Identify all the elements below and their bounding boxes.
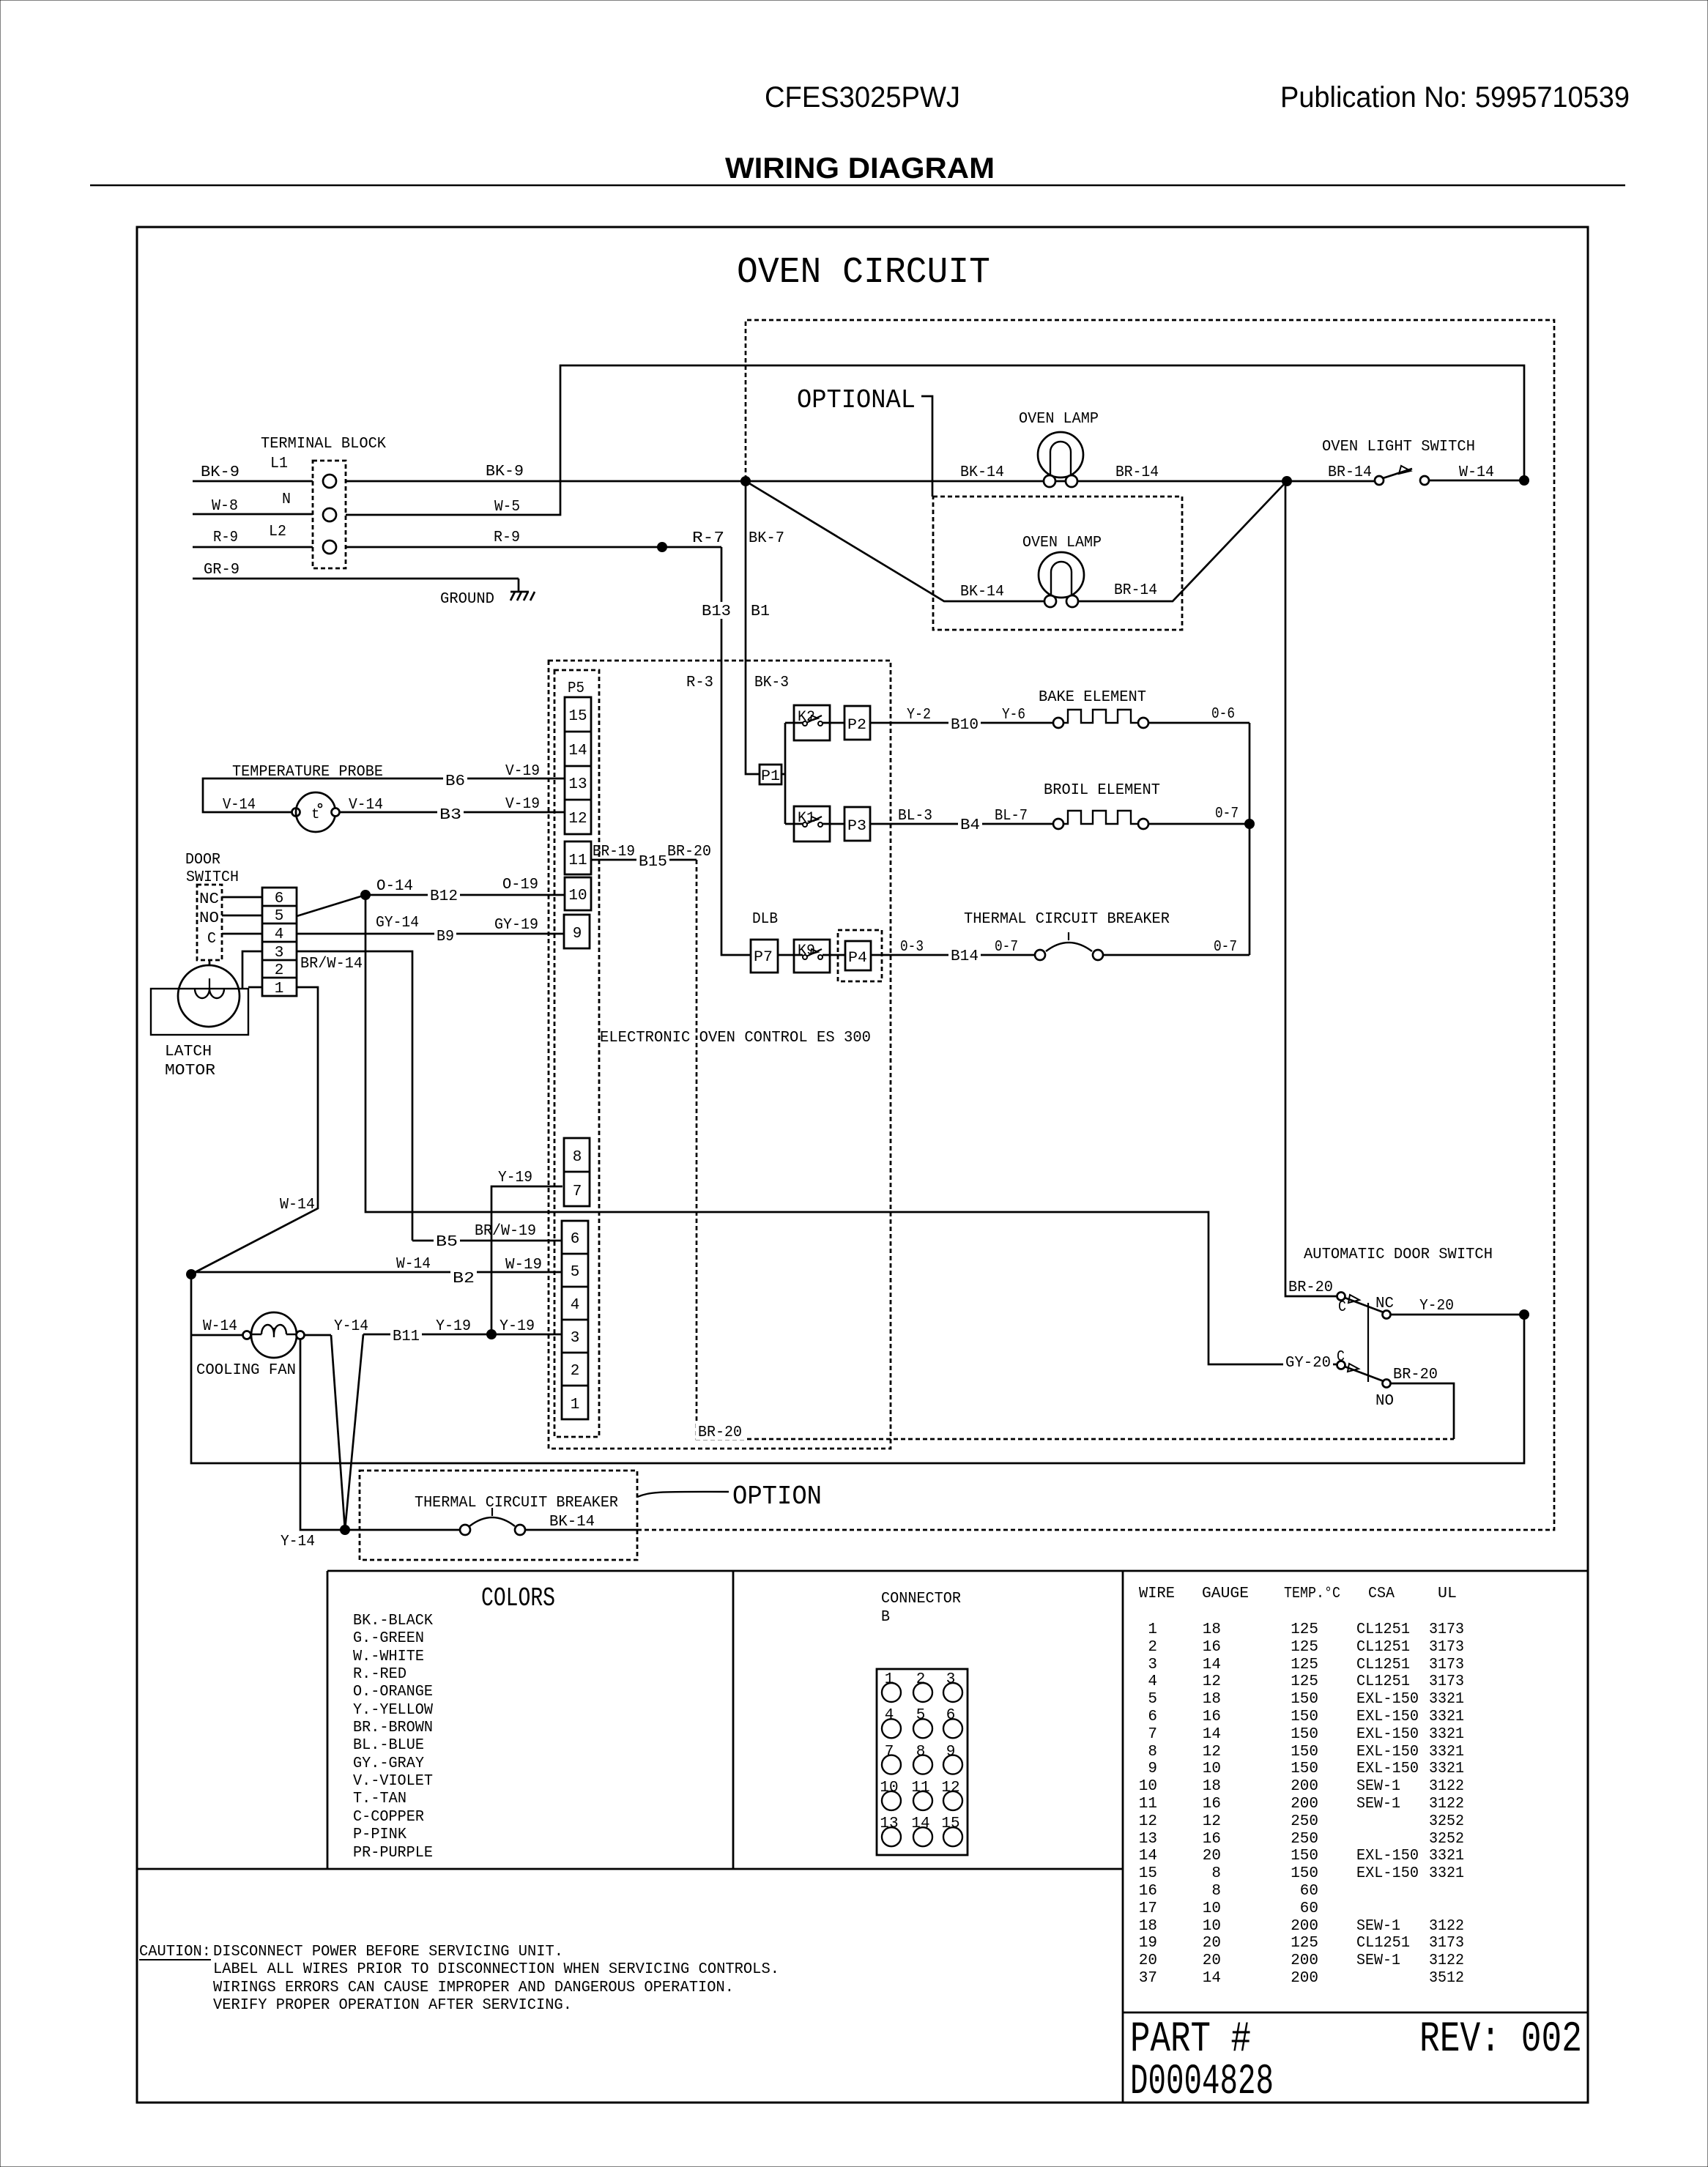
connector P2	[844, 706, 870, 740]
svg-text:C: C	[1338, 1299, 1346, 1316]
label B10	[948, 715, 981, 734]
optional lamp box	[933, 497, 1182, 630]
label BR-20 top	[667, 844, 711, 861]
svg-text:L1: L1	[270, 456, 288, 472]
svg-text:150: 150	[1291, 1865, 1318, 1882]
svg-text:3252: 3252	[1429, 1831, 1464, 1848]
svg-text:THERMAL CIRCUIT BREAKER: THERMAL CIRCUIT BREAKER	[964, 911, 1170, 928]
svg-text:NO: NO	[199, 910, 219, 927]
svg-text:W-14: W-14	[280, 1197, 315, 1213]
label O-7 right	[1214, 939, 1237, 956]
wire W-8	[193, 498, 313, 515]
svg-text:8: 8	[1211, 1883, 1221, 1900]
svg-text:N: N	[282, 491, 291, 508]
svg-text:3: 3	[946, 1671, 956, 1688]
svg-text:12: 12	[1203, 1673, 1221, 1690]
node O-14 junction	[360, 890, 371, 900]
svg-text:BR/W-14: BR/W-14	[300, 956, 363, 973]
label BK-7	[749, 530, 784, 547]
svg-text:BL.-BLUE: BL.-BLUE	[353, 1737, 424, 1754]
svg-text:0-3: 0-3	[900, 939, 924, 956]
broil element	[1044, 782, 1160, 829]
svg-text:BK-14: BK-14	[960, 464, 1004, 481]
svg-text:P1: P1	[761, 768, 780, 785]
wire NO to pin5	[222, 915, 262, 917]
label C upper	[1338, 1299, 1346, 1316]
svg-text:20: 20	[1203, 1952, 1221, 1969]
label Y-19 pin7	[498, 1170, 532, 1186]
svg-text:3321: 3321	[1429, 1691, 1464, 1708]
svg-text:OPTIONAL: OPTIONAL	[797, 385, 916, 415]
svg-text:B6: B6	[445, 773, 465, 790]
label B15	[636, 852, 669, 871]
colors legend	[353, 1583, 555, 1862]
svg-text:200: 200	[1291, 1796, 1318, 1813]
header model number	[765, 81, 960, 114]
svg-text:14: 14	[911, 1815, 929, 1832]
caution text	[139, 1944, 779, 2014]
label BK-3	[754, 674, 789, 691]
svg-text:BR-20: BR-20	[1393, 1367, 1438, 1383]
P5 pin 10	[565, 877, 591, 910]
svg-text:Publication No: 5995710539: Publication No: 5995710539	[1280, 81, 1630, 114]
wire door switch C-box to motor	[209, 960, 211, 966]
svg-text:LATCH: LATCH	[165, 1044, 212, 1060]
label BL-7	[995, 808, 1028, 825]
node BR junction	[1282, 476, 1292, 486]
svg-text:3: 3	[275, 945, 284, 962]
svg-text:CFES3025PWJ: CFES3025PWJ	[765, 81, 960, 114]
svg-text:0-7: 0-7	[995, 939, 1018, 956]
label C lower	[1337, 1349, 1345, 1366]
label BR/W-14	[300, 956, 363, 973]
svg-text:200: 200	[1291, 1970, 1318, 1987]
svg-text:3173: 3173	[1429, 1621, 1464, 1638]
svg-text:Y.-YELLOW: Y.-YELLOW	[353, 1702, 433, 1719]
svg-text:DISCONNECT POWER BEFORE SERVIC: DISCONNECT POWER BEFORE SERVICING UNIT.	[213, 1944, 563, 1960]
svg-text:CL1251: CL1251	[1356, 1657, 1410, 1673]
svg-text:9: 9	[1148, 1761, 1157, 1777]
svg-text:0-6: 0-6	[1211, 706, 1235, 723]
label BR-20 bottom	[696, 1423, 744, 1441]
svg-text:18: 18	[1139, 1918, 1157, 1935]
wire BK-14 option breaker loop	[637, 320, 1554, 1530]
svg-text:W-8: W-8	[212, 498, 238, 515]
svg-text:15: 15	[941, 1815, 959, 1832]
connector P1	[760, 765, 781, 785]
svg-text:BR-14: BR-14	[1328, 464, 1372, 481]
P5 pins 8-7	[564, 1138, 590, 1206]
svg-text:COOLING FAN: COOLING FAN	[196, 1362, 296, 1379]
svg-text:12: 12	[1139, 1813, 1157, 1830]
svg-text:GROUND: GROUND	[440, 591, 494, 608]
svg-text:V-19: V-19	[505, 763, 540, 780]
wire P2 to bake element	[870, 722, 1053, 724]
svg-text:Y-19: Y-19	[436, 1318, 471, 1335]
wire O-6	[1148, 723, 1250, 824]
svg-text:R-3: R-3	[686, 674, 713, 691]
title OVEN CIRCUIT	[737, 252, 990, 294]
svg-text:150: 150	[1291, 1744, 1318, 1761]
wire C to pin4	[222, 933, 262, 935]
svg-text:V-19: V-19	[505, 796, 540, 813]
svg-text:BL-7: BL-7	[995, 808, 1028, 825]
svg-text:10: 10	[1203, 1761, 1221, 1777]
wire BR-14/BR-20 down right side	[1285, 481, 1337, 1296]
label V-14 right	[349, 797, 383, 814]
option thermal breaker contacts	[460, 1508, 637, 1535]
connector P4	[838, 930, 882, 981]
svg-text:10: 10	[1203, 1918, 1221, 1935]
label V-19 pin13	[505, 763, 540, 780]
svg-text:W-5: W-5	[494, 499, 520, 516]
label O-3	[900, 939, 924, 956]
svg-text:200: 200	[1291, 1778, 1318, 1795]
svg-text:C: C	[1337, 1349, 1345, 1366]
label B13	[699, 602, 733, 620]
svg-text:BR/W-19: BR/W-19	[475, 1223, 536, 1240]
svg-text:PART #: PART #	[1130, 2016, 1251, 2064]
svg-text:BK-7: BK-7	[749, 530, 784, 547]
svg-text:125: 125	[1291, 1621, 1318, 1638]
label W-14 b2	[396, 1256, 431, 1273]
ground symbol	[440, 579, 535, 608]
label Y-19 left	[436, 1318, 471, 1335]
svg-text:Y-19: Y-19	[498, 1170, 532, 1186]
label BK-14 upper	[960, 464, 1004, 481]
svg-text:R.-RED: R.-RED	[353, 1666, 406, 1683]
svg-text:B9: B9	[437, 929, 454, 945]
svg-text:P3: P3	[847, 818, 866, 835]
node Y-19 junction	[486, 1329, 497, 1339]
svg-text:B5: B5	[436, 1234, 458, 1251]
label Y-14 bottom	[281, 1534, 315, 1550]
svg-text:60: 60	[1300, 1900, 1318, 1917]
svg-text:8: 8	[1211, 1865, 1221, 1882]
wire GR-9	[193, 562, 519, 579]
svg-text:12: 12	[1203, 1744, 1221, 1761]
svg-text:14: 14	[1203, 1657, 1221, 1673]
svg-text:200: 200	[1291, 1952, 1318, 1969]
P5 pin 11	[565, 841, 591, 874]
svg-text:P5: P5	[568, 680, 584, 697]
door switch	[185, 852, 239, 960]
svg-text:CSA: CSA	[1368, 1586, 1395, 1602]
svg-text:C-COPPER: C-COPPER	[353, 1809, 424, 1826]
svg-text:V.-VIOLET: V.-VIOLET	[353, 1773, 433, 1790]
wire W-5 neutral loop	[346, 365, 1524, 516]
wire cell3 left to motor box	[242, 951, 262, 989]
P5 pins 15-12	[565, 697, 591, 834]
label BK-14 option	[549, 1514, 595, 1531]
wire K2 to P2	[823, 722, 844, 724]
label Y-19 right	[500, 1318, 535, 1335]
header title WIRING DIAGRAM	[725, 152, 995, 185]
bake element	[1039, 689, 1148, 728]
svg-text:BK-14: BK-14	[549, 1514, 595, 1531]
svg-text:CONNECTOR: CONNECTOR	[881, 1591, 961, 1607]
svg-text:3122: 3122	[1429, 1918, 1464, 1935]
svg-text:3512: 3512	[1429, 1970, 1464, 1987]
wire R-9 right	[346, 529, 721, 547]
svg-text:P4: P4	[848, 950, 867, 967]
svg-text:8: 8	[1148, 1744, 1157, 1761]
svg-text:0-7: 0-7	[1214, 939, 1237, 956]
label Y-14 fan	[334, 1318, 368, 1335]
svg-text:4: 4	[885, 1707, 894, 1724]
wire Y-14 fan to junction	[300, 1335, 460, 1530]
wire cell1 left to motor box	[248, 986, 262, 989]
label O-14	[376, 878, 413, 895]
svg-text:150: 150	[1291, 1848, 1318, 1865]
svg-text:NO: NO	[1375, 1393, 1394, 1410]
label B12	[428, 887, 460, 905]
svg-text:WIRE: WIRE	[1139, 1586, 1175, 1602]
svg-text:10: 10	[1203, 1900, 1221, 1917]
svg-text:B2: B2	[453, 1271, 475, 1287]
svg-text:3173: 3173	[1429, 1639, 1464, 1656]
svg-text:7: 7	[573, 1183, 582, 1200]
svg-text:0-7: 0-7	[1215, 806, 1239, 822]
svg-text:OPTION: OPTION	[732, 1482, 822, 1512]
label B1	[749, 602, 772, 620]
wire B11 / Y-19 to pin3	[345, 1334, 562, 1530]
svg-text:CAUTION:: CAUTION:	[139, 1944, 211, 1960]
label O-7 broil	[1215, 806, 1239, 822]
svg-text:6: 6	[571, 1231, 580, 1248]
svg-text:17: 17	[1139, 1900, 1157, 1917]
svg-text:6: 6	[275, 891, 284, 907]
wire BK-9 left	[193, 464, 313, 481]
svg-text:PR-PURPLE: PR-PURPLE	[353, 1845, 433, 1862]
label BR/W-19	[475, 1223, 536, 1240]
svg-text:GR-9: GR-9	[204, 562, 240, 579]
node W-14 junction	[1519, 475, 1529, 486]
svg-text:2: 2	[916, 1671, 926, 1688]
svg-text:BR-20: BR-20	[698, 1424, 742, 1441]
wire K1 to P3	[823, 823, 844, 825]
svg-text:GY-19: GY-19	[494, 917, 538, 934]
svg-text:B15: B15	[639, 854, 667, 871]
svg-text:BR-20: BR-20	[1288, 1279, 1333, 1296]
relay K2	[794, 705, 830, 740]
label O-7 left	[995, 939, 1018, 956]
svg-text:3321: 3321	[1429, 1761, 1464, 1777]
wire W-14 from cell1 down	[191, 987, 318, 1274]
svg-text:150: 150	[1291, 1691, 1318, 1708]
svg-text:125: 125	[1291, 1639, 1318, 1656]
svg-text:1: 1	[1148, 1621, 1157, 1638]
wire Y-19 to pin7	[491, 1186, 562, 1334]
svg-text:150: 150	[1291, 1709, 1318, 1725]
automatic door switch	[1304, 1246, 1493, 1388]
svg-text:G.-GREEN: G.-GREEN	[353, 1630, 424, 1647]
svg-text:OVEN CIRCUIT: OVEN CIRCUIT	[737, 252, 990, 294]
wire P7 to K9	[778, 954, 803, 956]
svg-text:V-14: V-14	[223, 797, 256, 814]
wire W-14 to fan	[191, 1334, 243, 1337]
svg-text:3252: 3252	[1429, 1813, 1464, 1830]
svg-text:3173: 3173	[1429, 1673, 1464, 1690]
svg-text:11: 11	[568, 852, 587, 869]
svg-text:3321: 3321	[1429, 1865, 1464, 1882]
label BR-14 upper	[1115, 464, 1159, 481]
svg-text:O.-ORANGE: O.-ORANGE	[353, 1684, 433, 1700]
label BR-20 ads	[1288, 1279, 1333, 1296]
label BL-3	[898, 808, 932, 825]
label W-14 latch	[280, 1197, 315, 1213]
wire gauge table	[1139, 1586, 1464, 1987]
svg-text:TERMINAL BLOCK: TERMINAL BLOCK	[261, 436, 386, 453]
node W-14 junction left	[186, 1269, 196, 1279]
svg-text:4: 4	[571, 1297, 580, 1314]
svg-text:5: 5	[1148, 1691, 1157, 1708]
svg-text:7: 7	[1148, 1726, 1157, 1743]
svg-text:WIRING DIAGRAM: WIRING DIAGRAM	[725, 152, 995, 185]
label O-19	[502, 877, 538, 893]
wire O-14 diagonal to NO cell5	[297, 895, 365, 916]
svg-text:14: 14	[1139, 1848, 1157, 1865]
svg-text:SEW-1: SEW-1	[1356, 1952, 1400, 1969]
svg-text:2: 2	[571, 1363, 580, 1380]
cooling fan	[196, 1312, 305, 1379]
temperature probe	[203, 764, 565, 832]
wire O-7 to junction	[1148, 823, 1250, 825]
svg-text:BR-14: BR-14	[1115, 464, 1159, 481]
label B11	[390, 1327, 422, 1345]
svg-text:250: 250	[1291, 1831, 1318, 1848]
svg-text:5: 5	[275, 908, 284, 925]
bottom panel dividers	[137, 1571, 1588, 2103]
svg-text:4: 4	[275, 926, 284, 943]
label V-14 left	[223, 797, 256, 814]
svg-text:CL1251: CL1251	[1356, 1673, 1410, 1690]
label GY-19	[494, 917, 538, 934]
header rule	[90, 185, 1625, 186]
svg-text:19: 19	[1139, 1935, 1157, 1952]
svg-text:EXL-150: EXL-150	[1356, 1709, 1419, 1725]
label B14	[948, 947, 981, 965]
svg-text:6: 6	[1148, 1709, 1157, 1725]
svg-text:DOOR: DOOR	[185, 852, 220, 869]
svg-text:8: 8	[573, 1149, 582, 1166]
oven light switch	[1322, 439, 1475, 485]
oven lamp 1 (upper)	[1019, 411, 1099, 487]
wire W-14 bottom return	[191, 1274, 1524, 1463]
svg-text:200: 200	[1291, 1918, 1318, 1935]
svg-text:B3: B3	[439, 807, 461, 824]
svg-text:R-7: R-7	[692, 530, 724, 547]
wire O-7 down to breaker	[1249, 824, 1251, 955]
wire BK-9 / BK-14 main run	[346, 464, 1375, 481]
svg-text:Y-14: Y-14	[281, 1534, 315, 1550]
svg-text:150: 150	[1291, 1761, 1318, 1777]
svg-text:W-14: W-14	[1459, 464, 1494, 481]
svg-text:9: 9	[573, 926, 582, 943]
svg-text:OVEN LAMP: OVEN LAMP	[1022, 535, 1102, 551]
svg-text:1: 1	[885, 1671, 894, 1688]
svg-text:BK.-BLACK: BK.-BLACK	[353, 1613, 433, 1629]
svg-text:DLB: DLB	[752, 911, 778, 928]
svg-text:W.-WHITE: W.-WHITE	[353, 1649, 424, 1665]
label NO	[1375, 1393, 1394, 1410]
svg-text:18: 18	[1203, 1691, 1221, 1708]
label W-14 fan	[203, 1318, 237, 1335]
svg-text:CL1251: CL1251	[1356, 1935, 1410, 1952]
wire R-7 / B13 / R-3 down to DLB	[721, 547, 751, 955]
label O-6	[1211, 706, 1235, 723]
svg-text:NC: NC	[1375, 1296, 1394, 1312]
diagram border frame	[137, 227, 1588, 2103]
label B9	[434, 927, 456, 945]
svg-text:1: 1	[275, 981, 284, 997]
header publication number	[1280, 81, 1630, 114]
svg-text:BK-3: BK-3	[754, 674, 789, 691]
svg-text:150: 150	[1291, 1726, 1318, 1743]
svg-text:11: 11	[1139, 1796, 1157, 1813]
svg-text:3321: 3321	[1429, 1726, 1464, 1743]
svg-text:2: 2	[1148, 1639, 1157, 1656]
svg-text:Y-14: Y-14	[334, 1318, 368, 1335]
svg-text:B14: B14	[951, 948, 979, 965]
svg-text:20: 20	[1139, 1952, 1157, 1969]
svg-text:R-9: R-9	[494, 529, 520, 546]
svg-text:BK-14: BK-14	[960, 584, 1004, 601]
svg-text:EXL-150: EXL-150	[1356, 1865, 1419, 1882]
wire P4 to breaker	[871, 954, 1035, 956]
svg-text:TEMP.°C: TEMP.°C	[1284, 1586, 1340, 1602]
connector P7	[751, 940, 778, 973]
svg-text:CL1251: CL1251	[1356, 1621, 1410, 1638]
svg-text:3122: 3122	[1429, 1952, 1464, 1969]
svg-text:COLORS: COLORS	[481, 1583, 555, 1613]
node BK junction B1	[740, 476, 751, 486]
svg-text:20: 20	[1203, 1935, 1221, 1952]
svg-text:3321: 3321	[1429, 1848, 1464, 1865]
P5 pins 6-1	[562, 1221, 588, 1419]
svg-text:REV: 002: REV: 002	[1419, 2016, 1582, 2064]
svg-text:BR.-BROWN: BR.-BROWN	[353, 1720, 433, 1736]
svg-text:BK-9: BK-9	[201, 464, 240, 481]
svg-text:15: 15	[1139, 1865, 1157, 1882]
svg-text:Y-19: Y-19	[500, 1318, 535, 1335]
svg-text:5: 5	[916, 1707, 926, 1724]
svg-text:W-14: W-14	[396, 1256, 431, 1273]
label BR-14 switch	[1328, 464, 1372, 481]
svg-text:11: 11	[911, 1780, 929, 1796]
part number block	[1130, 2016, 1582, 2106]
label BR-14 lower	[1114, 582, 1157, 599]
label B4	[958, 816, 982, 834]
svg-text:BAKE ELEMENT: BAKE ELEMENT	[1039, 689, 1146, 706]
svg-text:37: 37	[1139, 1970, 1157, 1987]
svg-text:C: C	[207, 931, 216, 948]
label BR-19	[593, 844, 635, 861]
svg-text:12: 12	[568, 811, 587, 828]
electronic oven control ES 300 box	[549, 661, 891, 1449]
svg-text:B4: B4	[960, 817, 980, 834]
svg-text:GY-14: GY-14	[376, 915, 419, 932]
svg-text:T.-TAN: T.-TAN	[353, 1791, 406, 1807]
option thermal circuit breaker box	[360, 1471, 637, 1560]
svg-text:BL-3: BL-3	[898, 808, 932, 825]
svg-text:OVEN LAMP: OVEN LAMP	[1019, 411, 1099, 428]
label OPTIONAL with pointer	[797, 385, 932, 497]
terminal block TB	[261, 436, 386, 568]
svg-text:3122: 3122	[1429, 1796, 1464, 1813]
P5 pin 9	[564, 915, 590, 948]
door switch connector block 6-1	[262, 888, 297, 997]
